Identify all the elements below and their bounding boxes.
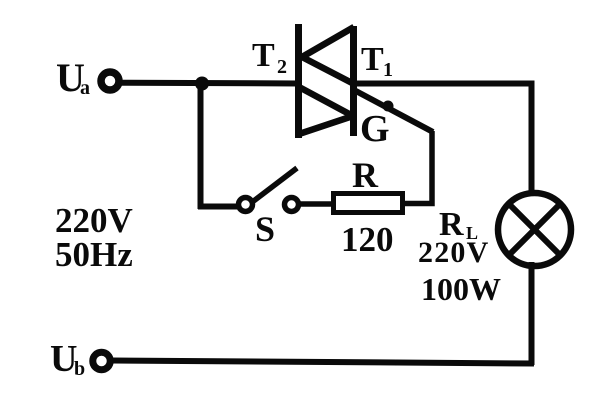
switch S throw circle xyxy=(285,198,299,212)
svg-text:R: R xyxy=(352,155,379,195)
terminal Ua xyxy=(101,72,119,90)
svg-text:2: 2 xyxy=(277,56,287,78)
triac left bar (T2 electrode) xyxy=(295,24,302,138)
wire Ua to triac T2 xyxy=(121,80,299,87)
svg-text:a: a xyxy=(80,77,90,99)
svg-text:50Hz: 50Hz xyxy=(55,235,133,274)
wire bottom to Ub xyxy=(112,361,534,364)
svg-text:T: T xyxy=(252,37,275,74)
svg-text:1: 1 xyxy=(383,59,393,81)
wire gate diagonal xyxy=(354,90,433,132)
triac lower triangle xyxy=(299,87,353,134)
lamp RL circle xyxy=(498,193,571,266)
wire junction down xyxy=(198,83,204,209)
wire resistor to gate corner xyxy=(403,131,432,204)
node junction dot xyxy=(195,77,209,91)
wire T1 to lamp xyxy=(357,84,532,194)
svg-text:b: b xyxy=(74,358,85,380)
svg-text:100W: 100W xyxy=(421,271,501,307)
wire lamp to bottom xyxy=(529,262,535,365)
svg-text:T: T xyxy=(361,41,384,78)
lamp RL cross xyxy=(509,204,560,255)
svg-text:S: S xyxy=(255,209,275,249)
wire to switch xyxy=(198,204,237,210)
switch S lever xyxy=(251,168,297,203)
terminal Ub xyxy=(93,352,111,370)
switch S pole circle xyxy=(239,198,253,212)
wire switch to resistor xyxy=(299,201,334,207)
triac upper triangle xyxy=(302,27,354,84)
node dot on gate wire xyxy=(383,101,394,112)
svg-text:G: G xyxy=(360,108,390,150)
resistor R body xyxy=(334,194,403,213)
triac right bar (T1 electrode) xyxy=(350,26,357,136)
svg-text:220V: 220V xyxy=(418,236,489,269)
svg-text:120: 120 xyxy=(341,220,394,259)
